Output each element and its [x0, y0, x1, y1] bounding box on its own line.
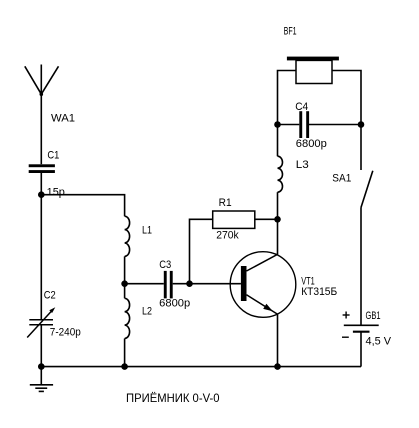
svg-text:C1: C1 — [47, 150, 59, 162]
svg-text:L1: L1 — [142, 225, 152, 237]
svg-text:L3: L3 — [296, 159, 309, 171]
svg-text:6800p: 6800p — [296, 138, 327, 150]
svg-text:КТ315Б: КТ315Б — [301, 286, 337, 298]
svg-text:L2: L2 — [142, 306, 152, 318]
svg-text:ПРИЁМНИК 0-V-0: ПРИЁМНИК 0-V-0 — [126, 391, 220, 405]
svg-text:R1: R1 — [219, 197, 232, 209]
svg-text:C4: C4 — [295, 101, 308, 113]
svg-text:270k: 270k — [216, 230, 239, 242]
svg-text:7-240p: 7-240p — [50, 327, 81, 339]
svg-text:GB1: GB1 — [366, 310, 381, 322]
svg-text:WA1: WA1 — [51, 113, 75, 125]
svg-text:BF1: BF1 — [284, 25, 297, 37]
svg-text:SA1: SA1 — [332, 173, 351, 185]
svg-text:6800p: 6800p — [159, 298, 190, 310]
svg-text:15p: 15p — [47, 187, 65, 199]
svg-text:C3: C3 — [159, 259, 171, 271]
svg-text:C2: C2 — [44, 290, 56, 302]
svg-text:4,5 V: 4,5 V — [366, 336, 392, 348]
